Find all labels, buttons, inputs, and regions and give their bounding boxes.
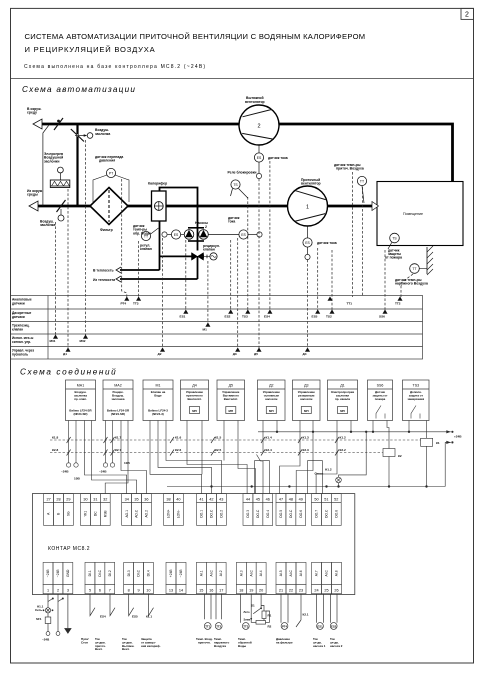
D1 wires [316,421,337,494]
M1 wires [150,421,202,494]
svg-text:Воздуха: Воздуха [214,644,226,648]
~24V terminal circles [66,463,70,467]
svg-text:40: 40 [176,497,180,501]
supply duct (lower thick line) [36,205,377,208]
svg-text:ЕS2: ЕS2 [331,624,337,628]
svg-text:ES: ES [257,156,262,160]
wall hatch [426,247,428,274]
svg-text:вентилятор: вентилятор [245,100,265,104]
damper heater actuator circle [58,167,64,173]
pump pipe down to valve [197,228,199,251]
header separator line [11,78,474,80]
svg-text:МП: МП [304,409,309,413]
svg-text:10В: 10В [74,477,80,481]
upper terminal strip cells [44,494,54,503]
svg-text:К2: К2 [398,454,402,458]
fire protection sensor TS [390,233,400,243]
svg-text:АI.3: АI.3 [239,570,243,576]
pump 1 (circle with triangle) [184,230,194,240]
svg-text:24: 24 [314,588,318,592]
fan2 current sensor ES [258,145,260,153]
svg-text:К2.8: К2.8 [52,448,58,452]
svg-text:DI.4: DI.4 [147,570,151,576]
svg-text:Д5: Д5 [229,384,233,388]
svg-text:К1.8: К1.8 [52,436,58,440]
svg-text:51: 51 [324,497,328,501]
svg-text:LON+: LON+ [167,509,171,518]
table connection flags [50,297,403,356]
svg-text:DI.С: DI.С [98,569,102,576]
svg-text:Схема соединений: Схема соединений [20,368,117,377]
PT4 sensor loop [281,594,288,623]
TS3 wires [408,421,410,432]
svg-text:LON−: LON− [177,509,181,518]
svg-text:Калорифер: Калорифер [148,182,167,186]
svg-text:DO.2: DO.2 [219,510,223,518]
svg-text:ES: ES [241,233,246,237]
svg-text:DO.1: DO.1 [200,510,204,518]
svg-text:вентилятор: вентилятор [301,182,321,186]
svg-text:насосом: насосом [265,397,277,401]
lower terminal strip cells [43,562,53,584]
interlock relay TS [231,180,240,189]
svg-text:27: 27 [46,497,50,501]
left enclosure line [43,126,49,207]
D5 wires [223,421,225,461]
svg-text:DI.3: DI.3 [127,570,131,576]
svg-text:ЕS2: ЕS2 [225,315,231,319]
three-way valve [192,253,204,261]
svg-text:25: 25 [324,588,328,592]
SS6 switch glyph [376,406,385,419]
svg-text:−24В: −24В [179,569,183,578]
svg-text:Вент.: Вент. [122,647,130,651]
MA2 power wires [105,421,107,463]
svg-text:Д1: Д1 [63,352,67,356]
svg-text:клапан: клапан [12,327,23,331]
K2.1 contact [296,594,301,627]
svg-text:датчики: датчики [12,302,25,306]
svg-text:ТТ3: ТТ3 [133,302,139,306]
svg-text:28: 28 [56,497,60,501]
pressure sensor PT (filter) [106,168,115,177]
ground symbol [65,629,71,634]
bridge wire [255,461,270,494]
svg-text:34: 34 [125,497,129,501]
frost protection box TS3 [403,380,430,421]
svg-text:49: 49 [299,497,303,501]
svg-text:38: 38 [166,497,170,501]
svg-text:DO.6: DO.6 [299,510,303,518]
starter box D1 [328,380,358,421]
svg-text:насоса 1: насоса 1 [313,644,326,648]
actuator box MA2 [103,380,133,421]
svg-text:10В: 10В [124,461,130,465]
svg-text:ES: ES [305,241,310,245]
svg-text:сигнал. упр.: сигнал. упр. [12,340,31,344]
svg-text:обр. Воды: обр. Воды [133,231,151,235]
svg-text:АI.5: АI.5 [279,570,283,576]
ES5 / K1.1 contacts [129,594,154,616]
svg-text:К1.5: К1.5 [215,436,221,440]
svg-text:17: 17 [219,588,223,592]
R1 resistor [262,611,266,619]
svg-text:Вентилят.: Вентилят. [187,397,201,401]
svg-text:2: 2 [57,588,59,592]
svg-text:АО.2: АО.2 [145,510,149,518]
svg-text:Фильтр: Фильтр [100,228,113,232]
svg-text:36: 36 [144,497,148,501]
svg-text:АI.8: АI.8 [335,570,339,576]
svg-text:5: 5 [89,588,91,592]
svg-text:заслонка: заслонка [112,397,125,401]
D4 wires [187,421,247,494]
svg-text:41: 41 [199,497,203,501]
svg-text:ТS2: ТS2 [326,315,332,319]
pipe from heat network (return) [120,278,198,280]
svg-text:ЕS5: ЕS5 [312,315,318,319]
svg-text:К2.2: К2.2 [340,448,346,452]
svg-text:ТТ1: ТТ1 [205,624,210,628]
svg-text:DO.С: DO.С [210,509,214,518]
svg-text:23: 23 [299,588,303,592]
svg-text:АI.6: АI.6 [299,570,303,576]
svg-text:АI.С: АI.С [209,569,213,576]
svg-text:датчик тока: датчик тока [317,241,337,245]
svg-text:Д4: Д4 [303,352,307,356]
svg-text:Схема автоматизации: Схема автоматизации [22,85,136,94]
fan1 current sensor ES [307,226,309,238]
svg-text:16: 16 [209,588,213,592]
svg-text:~24В: ~24В [42,638,50,642]
svg-text:DI.2: DI.2 [108,570,112,576]
svg-text:YК1: YК1 [84,511,88,517]
svg-text:32: 32 [103,497,107,501]
svg-text:К1: К1 [436,441,440,445]
svg-text:Д4: Д4 [192,384,196,388]
svg-text:АО.С: АО.С [135,509,139,518]
fire sensor box SS6 [368,380,393,421]
MA2 signal wires [121,421,147,494]
svg-text:42: 42 [209,497,213,501]
svg-text:9: 9 [137,588,139,592]
svg-text:DC: DC [94,511,98,516]
D2 wires [257,455,264,494]
svg-text:ТТ1: ТТ1 [347,302,353,306]
controller box KONTAR MC8.2 [32,494,354,595]
hot water pipe from heater top over to pumps [160,188,198,229]
svg-text:тока: тока [228,220,235,224]
exhaust outlet arrow [33,119,42,129]
power wires from terminals 1,2,3 [47,594,49,632]
svg-text:SG: SG [67,511,71,516]
svg-text:20: 20 [259,588,263,592]
svg-text:МА1: МА1 [77,384,84,388]
svg-text:ЕS5: ЕS5 [132,615,138,619]
svg-text:Д3: Д3 [304,384,308,388]
svg-text:44: 44 [246,497,250,501]
TT3 sensor loop [241,594,252,623]
svg-text:18: 18 [239,588,243,592]
svg-text:К1.6: К1.6 [175,436,181,440]
+24V bus [167,486,445,488]
svg-text:Воде: Воде [154,394,162,398]
svg-text:ЕS4: ЕS4 [100,615,106,619]
svg-text:насоса 2: насоса 2 [330,644,343,648]
MP sub-boxes [190,407,200,414]
signal table [11,296,423,360]
svg-text:+24В: +24В [169,569,173,578]
starter box D4 [181,380,209,421]
svg-text:46: 46 [266,497,270,501]
svg-text:22: 22 [289,588,293,592]
intake arrow [29,201,38,211]
TT1 sensor loop [205,594,212,620]
room box [377,182,463,246]
svg-text:SF1: SF1 [36,617,42,621]
damper heater element box [50,180,70,188]
pipe junction on duct [196,205,199,208]
svg-text:АI.7: АI.7 [315,570,319,576]
svg-text:АО.1: АО.1 [125,510,129,518]
svg-text:29: 29 [66,497,70,501]
relay contact row K2.x (dashed) [50,452,383,454]
outdoor air temp sensor TT [410,264,420,274]
page number box [461,8,474,19]
svg-text:RSB: RSB [103,510,107,518]
starter box D2 [258,380,286,421]
svg-text:пр. клап.: пр. клап. [74,397,87,401]
svg-text:Стоп: Стоп [81,640,88,644]
svg-text:среды: среды [27,193,38,197]
svg-text:М01: М01 [50,339,56,343]
svg-text:ТТ2: ТТ2 [395,302,401,306]
MA1 power wires [68,421,70,463]
D3 wires [280,421,300,494]
svg-text:PT: PT [109,172,113,176]
svg-text:Помещение: Помещение [403,212,423,216]
svg-text:~24В: ~24В [46,569,50,578]
svg-text:К1.3: К1.3 [303,436,309,440]
damper (exhaust) [54,118,63,130]
svg-text:DI.1: DI.1 [88,570,92,576]
MA1 signal wires [85,421,127,494]
ES1 sensor loop [317,594,324,623]
svg-text:Зима: Зима [244,618,251,622]
water temp sensor TT [141,231,150,240]
svg-text:Д3: Д3 [233,352,237,356]
valve actuator M1 [210,253,217,260]
svg-text:приточ. Воздуха: приточ. Воздуха [336,167,364,171]
svg-text:(NF24-SR): (NF24-SR) [111,412,125,416]
svg-text:R2: R2 [268,625,272,629]
svg-text:Д1: Д1 [340,384,344,388]
svg-text:45: 45 [256,497,260,501]
svg-text:GND: GND [66,569,70,577]
ES2 sensor loop [331,594,338,623]
svg-text:давления: давления [99,159,115,163]
TS3 switch glyph [411,406,420,419]
svg-text:АI.С: АI.С [325,569,329,576]
svg-text:М02: М02 [80,339,86,343]
svg-text:ЕS1: ЕS1 [180,315,186,319]
valve actuator box M1 [143,380,173,421]
svg-text:датчики: датчики [12,315,25,319]
phase ticks [48,599,62,602]
svg-text:DO.3: DO.3 [246,510,250,518]
svg-text:SS6: SS6 [377,384,384,388]
svg-text:8: 8 [128,588,130,592]
svg-text:Д2: Д2 [269,384,273,388]
svg-text:52: 52 [334,497,338,501]
svg-text:К1.4: К1.4 [266,436,272,440]
svg-text:пр. канала: пр. канала [335,397,350,401]
TT2 sensor loop [216,594,222,620]
svg-text:АI.1: АI.1 [199,570,203,576]
indicator lamp H1.2 [339,432,367,477]
svg-text:Схема выполнена на базе контро: Схема выполнена на базе контроллера МС8.… [24,64,206,70]
svg-text:Вентилят.: Вентилят. [224,397,238,401]
svg-text:наружного Воздуха: наружного Воздуха [395,282,428,286]
svg-text:АI.4: АI.4 [259,570,263,576]
svg-text:15: 15 [199,588,203,592]
svg-text:DO.С: DO.С [256,509,260,518]
svg-text:АI.С: АI.С [289,569,293,576]
svg-text:ТS3: ТS3 [413,384,420,388]
svg-text:от пожара: от пожара [385,256,402,260]
svg-text:Воды: Воды [238,644,247,648]
svg-text:Н1.2: Н1.2 [325,468,332,472]
heater (калорифер) [152,191,167,221]
supply fan 1 [288,186,328,226]
svg-text:заслонка: заслонка [95,132,110,136]
svg-text:среду: среду [27,111,37,115]
svg-text:Д5: Д5 [254,352,258,356]
svg-text:ТТ2: ТТ2 [216,624,221,628]
bus junction dots [210,485,212,487]
svg-text:(NF24-3): (NF24-3) [152,412,164,416]
relay coil K1 [421,438,433,446]
pump manifold bars [188,227,204,229]
svg-text:48: 48 [289,497,293,501]
SS6 wires [372,421,374,432]
svg-text:21: 21 [279,588,283,592]
svg-text:3: 3 [67,588,69,592]
svg-text:ТТ3: ТТ3 [243,624,248,628]
current sensor ES (pump right) [239,230,248,239]
svg-text:МА2: МА2 [114,384,121,388]
svg-text:Лето: Лето [244,610,250,614]
svg-text:заслонки: заслонки [44,159,59,163]
svg-text:КОНТАР МС8.2: КОНТАР МС8.2 [48,546,90,552]
breaker SF1 [45,617,51,624]
svg-text:М1: М1 [156,384,161,388]
svg-text:АI.2: АI.2 [219,570,223,576]
svg-text:М1: М1 [203,328,208,332]
svg-text:~24В: ~24В [99,470,107,474]
svg-text:К2.5: К2.5 [215,448,221,452]
svg-text:клапан: клапан [203,248,215,252]
S1 switch [260,594,262,608]
svg-text:47: 47 [279,497,283,501]
svg-text:(NF24-SR): (NF24-SR) [74,412,88,416]
svg-text:на фильтре: на фильтре [276,640,293,644]
+24V arrows [446,430,451,433]
recirculation duct (thick vertical) [76,124,78,206]
svg-text:И РЕЦИРКУЛЯЦИЕЙ ВОЗДУХА: И РЕЦИРКУЛЯЦИЕЙ ВОЗДУХА [25,45,156,54]
svg-text:14: 14 [179,588,183,592]
relay contact row K1.x (dashed) [50,439,421,441]
svg-text:МП: МП [192,409,197,413]
svg-text:ЕS4: ЕS4 [264,315,270,319]
svg-text:43: 43 [219,497,223,501]
svg-text:заслонка: заслонка [40,223,55,227]
svg-text:TT: TT [360,180,364,184]
svg-text:Д2: Д2 [158,352,162,356]
svg-text:пускатель: пускатель [12,352,28,356]
svg-text:ния калориф.: ния калориф. [141,644,161,648]
svg-text:Сеть: Сеть [35,608,42,612]
svg-text:31: 31 [93,497,97,501]
starter box D5 [217,380,245,421]
svg-text:ЕS1: ЕS1 [317,624,323,628]
svg-text:50: 50 [314,497,318,501]
svg-text:13: 13 [169,588,173,592]
wire run to +24V [258,431,451,433]
svg-text:МП: МП [269,409,274,413]
svg-text:DO.5: DO.5 [279,510,283,518]
svg-text:DO.С: DO.С [289,509,293,518]
svg-text:Реле блокировки: Реле блокировки [228,171,257,175]
starter box D3 [293,380,321,421]
svg-text:1: 1 [306,205,309,211]
svg-text:РТ4: РТ4 [121,302,127,306]
svg-text:К2.6: К2.6 [175,448,181,452]
svg-text:замерзания: замерзания [407,397,424,401]
svg-text:СИСТЕМА АВТОМАТИЗАЦИИ ПРИТОЧНО: СИСТЕМА АВТОМАТИЗАЦИИ ПРИТОЧНОЙ ВЕНТИЛЯЦ… [25,32,366,41]
svg-text:TS: TS [392,237,397,241]
contact slashes [67,437,339,456]
svg-text:10: 10 [146,588,150,592]
svg-text:2: 2 [465,12,469,19]
svg-text:+24В: +24В [454,435,462,439]
lamp H1.1 [45,608,50,613]
pump 2 (circle with triangle) [199,230,209,240]
svg-text:МП: МП [340,409,345,413]
svg-text:2: 2 [205,225,207,229]
actuator box MA1 [66,380,96,421]
svg-text:К2.7: К2.7 [115,448,121,452]
ES4 contact [90,594,115,616]
svg-text:клапан: клапан [140,247,152,251]
svg-text:Вент.: Вент. [95,647,103,651]
svg-text:S1: S1 [251,604,255,608]
return pipe from heater bottom down [159,221,161,270]
svg-text:1: 1 [47,588,49,592]
svg-text:DO.7: DO.7 [315,510,319,518]
svg-text:DI.С: DI.С [137,569,141,576]
dashed sensor drop lines [56,140,414,348]
supply air temp sensor TT [357,176,366,185]
exhaust duct (top thick line) [40,124,453,182]
filter (diamond) [90,188,128,225]
svg-text:30: 30 [83,497,87,501]
svg-text:6: 6 [99,588,101,592]
svg-text:датчик тока: датчик тока [268,156,288,160]
svg-text:~24В: ~24В [56,569,60,578]
svg-text:К1.2: К1.2 [340,436,346,440]
svg-text:2: 2 [257,124,260,130]
